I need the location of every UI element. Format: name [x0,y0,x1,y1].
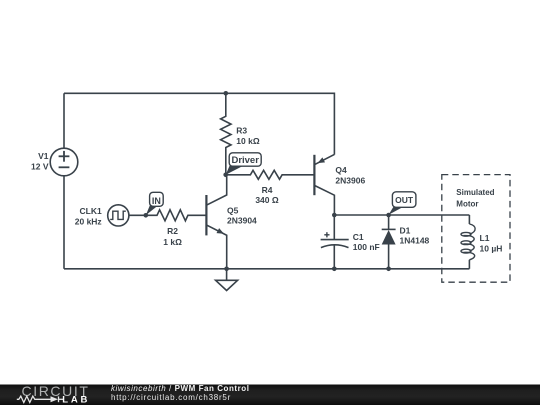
svg-text:D1: D1 [400,226,411,236]
svg-text:10 kΩ: 10 kΩ [236,136,260,146]
svg-text:C1: C1 [353,232,364,242]
svg-text:20 kHz: 20 kHz [75,217,102,227]
svg-text:340 Ω: 340 Ω [255,195,279,205]
svg-text:IN: IN [152,196,161,206]
svg-text:Simulated: Simulated [456,188,494,197]
svg-text:OUT: OUT [395,195,414,205]
svg-text:Driver: Driver [231,155,259,166]
svg-text:kiwisincebirth / PWM Fan Contr: kiwisincebirth / PWM Fan Control [111,384,250,393]
svg-text:R4: R4 [262,185,273,195]
svg-text:R3: R3 [236,126,247,136]
svg-text:2N3904: 2N3904 [227,215,257,225]
svg-text:Q4: Q4 [335,165,347,175]
svg-text:1 kΩ: 1 kΩ [163,237,182,247]
svg-text:2N3906: 2N3906 [335,175,365,185]
svg-text:L1: L1 [480,233,490,243]
svg-text:10 µH: 10 µH [480,244,503,254]
svg-text:V1: V1 [38,151,49,161]
svg-text:R2: R2 [167,226,178,236]
svg-text:http://circuitlab.com/ch38r5r: http://circuitlab.com/ch38r5r [111,393,231,402]
svg-text:LAB: LAB [62,394,90,405]
svg-text:Motor: Motor [456,199,478,208]
svg-text:Q5: Q5 [227,206,239,216]
svg-text:1N4148: 1N4148 [400,236,430,246]
svg-text:100 nF: 100 nF [353,242,380,252]
svg-text:12 V: 12 V [31,162,49,172]
svg-text:CLK1: CLK1 [79,206,101,216]
